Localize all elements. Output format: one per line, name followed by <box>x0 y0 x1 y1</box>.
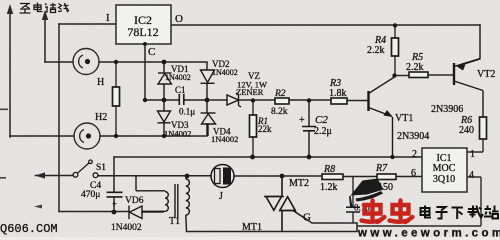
svg-text:470μ: 470μ <box>81 190 100 200</box>
triac <box>264 176 309 231</box>
relay J <box>211 165 234 188</box>
resistor R8 <box>322 174 343 180</box>
wire right drop to VT2 emitter <box>459 25 480 66</box>
svg-text:0.1μ: 0.1μ <box>179 107 195 117</box>
svg-text:MOC: MOC <box>433 163 456 174</box>
resistor R4 <box>392 26 399 76</box>
stray scan marks <box>0 109 42 209</box>
svg-text:2N3906: 2N3906 <box>431 104 463 115</box>
svg-text:H2: H2 <box>95 112 107 123</box>
svg-text:R2: R2 <box>274 89 286 99</box>
watermark 虫虫 red <box>362 201 413 223</box>
wire IC2 common pin C <box>144 44 146 100</box>
svg-text:22k: 22k <box>258 124 272 134</box>
svg-text:1.2k: 1.2k <box>320 182 338 193</box>
svg-text:1N4002: 1N4002 <box>212 68 238 77</box>
resistor R7 <box>377 174 396 180</box>
svg-text:C2: C2 <box>315 114 328 126</box>
svg-text:1.8k: 1.8k <box>329 88 347 99</box>
svg-text:1N4002: 1N4002 <box>165 73 191 82</box>
wire top rail (IC2 output) <box>171 24 480 26</box>
svg-text:78L12: 78L12 <box>127 25 158 39</box>
capacitor C3 <box>346 177 360 224</box>
wire gate to IC1 pin4 <box>309 177 481 226</box>
wire VD6 row <box>59 211 163 214</box>
wire H1 row <box>45 61 207 63</box>
svg-text:VD6: VD6 <box>125 196 144 206</box>
capacitor C1 <box>179 94 184 105</box>
svg-text:R7: R7 <box>375 163 388 174</box>
svg-text:S1: S1 <box>96 163 106 173</box>
wire IC2 input <box>59 23 116 25</box>
resistor R6 <box>467 117 487 152</box>
svg-text:1N4002: 1N4002 <box>211 134 238 144</box>
wire phone-line arrow 1 <box>7 4 13 137</box>
zener VZ <box>227 93 241 107</box>
wire C4 column <box>113 157 115 192</box>
svg-text:1N4002: 1N4002 <box>111 223 142 233</box>
svg-text:O: O <box>175 13 183 25</box>
svg-text:8.2k: 8.2k <box>271 107 288 117</box>
diode VD6 <box>129 206 142 220</box>
wire mid rail <box>145 99 368 102</box>
svg-text:2.2k: 2.2k <box>406 62 424 73</box>
svg-text:H: H <box>97 77 104 88</box>
transistor VT2 2N3906 <box>454 59 483 118</box>
svg-text:Q606.COM: Q606.COM <box>0 222 58 236</box>
svg-text:T1: T1 <box>169 216 180 227</box>
transformer T1 <box>136 176 189 232</box>
jack H2 <box>74 123 100 149</box>
wire phone-line arrow 2 <box>42 10 48 62</box>
resistor R5 <box>395 72 455 78</box>
svg-text:J: J <box>219 191 223 202</box>
svg-text:+: + <box>299 115 305 126</box>
resistor R3 <box>331 98 347 104</box>
svg-text:ZENER: ZENER <box>236 87 264 97</box>
svg-text:2: 2 <box>412 149 417 160</box>
svg-text:240: 240 <box>459 125 474 136</box>
wire bottom rail MT1 <box>187 223 358 232</box>
node left bus wire <box>58 24 60 211</box>
jack H1 <box>73 49 99 75</box>
svg-text:6: 6 <box>411 168 416 179</box>
svg-text:www.eeworm.com: www.eeworm.com <box>357 228 500 238</box>
svg-text:VT2: VT2 <box>477 69 495 80</box>
svg-text:MT2: MT2 <box>289 178 309 189</box>
wire H2 row <box>10 124 207 136</box>
svg-text:VT1: VT1 <box>395 113 413 124</box>
IC1 MOC3Q10 <box>422 148 467 192</box>
svg-text:2N3904: 2N3904 <box>397 131 429 142</box>
label 至电话线 <box>20 3 70 14</box>
diode VD3 <box>158 100 171 136</box>
svg-text:C1: C1 <box>175 85 186 95</box>
svg-text:MT1: MT1 <box>242 222 262 233</box>
svg-text:4: 4 <box>469 170 474 181</box>
svg-text:I: I <box>106 12 110 24</box>
svg-text:3Q10: 3Q10 <box>433 174 455 185</box>
resistor between H rows <box>113 62 120 136</box>
wire left arrow to phone line <box>35 172 45 178</box>
diode VD4 <box>201 100 216 136</box>
diode VD1 <box>158 62 172 100</box>
IC2 78L12 <box>116 5 171 44</box>
svg-text:+: + <box>112 199 117 209</box>
wire rail A <box>114 156 422 158</box>
svg-text:1: 1 <box>470 149 475 160</box>
transistor VT1 2N3904 <box>369 77 395 157</box>
watermark 电子下载站 <box>421 206 499 220</box>
svg-text:R8: R8 <box>323 164 335 175</box>
svg-text:C: C <box>148 46 155 58</box>
capacitor C4 <box>107 192 123 212</box>
resistor R2 <box>275 98 289 104</box>
svg-text:1N4002: 1N4002 <box>164 129 191 139</box>
capacitor C2 <box>302 100 316 157</box>
switch S1 <box>73 160 98 178</box>
svg-text:2.2μ: 2.2μ <box>314 126 332 137</box>
resistor R1 <box>250 100 257 157</box>
svg-text:2.2k: 2.2k <box>367 45 385 56</box>
wire rail B (S1 row) <box>36 176 423 177</box>
watermark cap logo (mortarboard) <box>349 179 384 207</box>
diode VD2 <box>201 62 215 100</box>
